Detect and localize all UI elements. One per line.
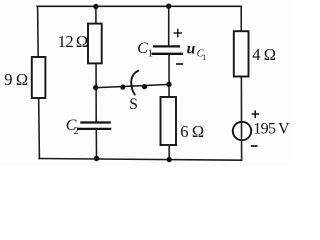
wire branch2 upper (12ohm/C2 branch)	[95, 6, 97, 122]
svg-text:2: 2	[74, 126, 79, 137]
voltage source circle 195V	[233, 122, 251, 140]
wire middle switch wire	[96, 84, 169, 87]
plus sign of 195V source	[252, 110, 259, 118]
svg-text:6 Ω: 6 Ω	[180, 122, 204, 141]
node dot middle wire right junction	[166, 82, 171, 87]
wire branch2 lower (below C2)	[95, 129, 97, 159]
node dot bottom of C2 branch	[94, 156, 99, 161]
plus sign of uC1	[174, 29, 183, 38]
svg-text:195 V: 195 V	[253, 121, 290, 138]
svg-text:1: 1	[202, 53, 206, 62]
wire left branch vertical	[38, 6, 40, 158]
svg-text:u: u	[187, 40, 196, 57]
node dot switch left terminal	[120, 85, 125, 90]
node dot top of 12ohm branch	[93, 4, 98, 9]
resistor 6ohm	[161, 97, 177, 145]
svg-text:12 Ω: 12 Ω	[58, 32, 88, 51]
node dot middle wire left junction	[93, 85, 98, 90]
node dot top of C1 branch	[166, 3, 171, 8]
svg-text:4 Ω: 4 Ω	[252, 45, 276, 64]
minus sign of uC1	[176, 63, 183, 65]
capacitor C2 plates	[77, 123, 111, 129]
wire right branch vertical	[240, 6, 242, 160]
node dot bottom of 6ohm branch	[167, 157, 172, 162]
node dot switch right terminal	[142, 84, 147, 89]
resistor 12ohm	[88, 24, 102, 64]
capacitor C1 plates	[152, 46, 184, 53]
resistor 9ohm	[32, 57, 46, 98]
svg-text:S: S	[129, 96, 138, 113]
wire bottom horizontal	[39, 159, 242, 161]
wire branch3 lower (C1 to 6ohm to bottom)	[168, 54, 170, 160]
wire branch3 upper (above C1)	[168, 6, 170, 46]
minus sign of 195V source	[251, 145, 258, 147]
svg-text:9 Ω: 9 Ω	[4, 70, 28, 89]
svg-text:1: 1	[148, 49, 153, 60]
resistor 4ohm	[234, 31, 249, 76]
switch S blade arc	[131, 71, 138, 95]
wire top horizontal	[37, 5, 241, 7]
svg-text:C: C	[137, 40, 148, 57]
